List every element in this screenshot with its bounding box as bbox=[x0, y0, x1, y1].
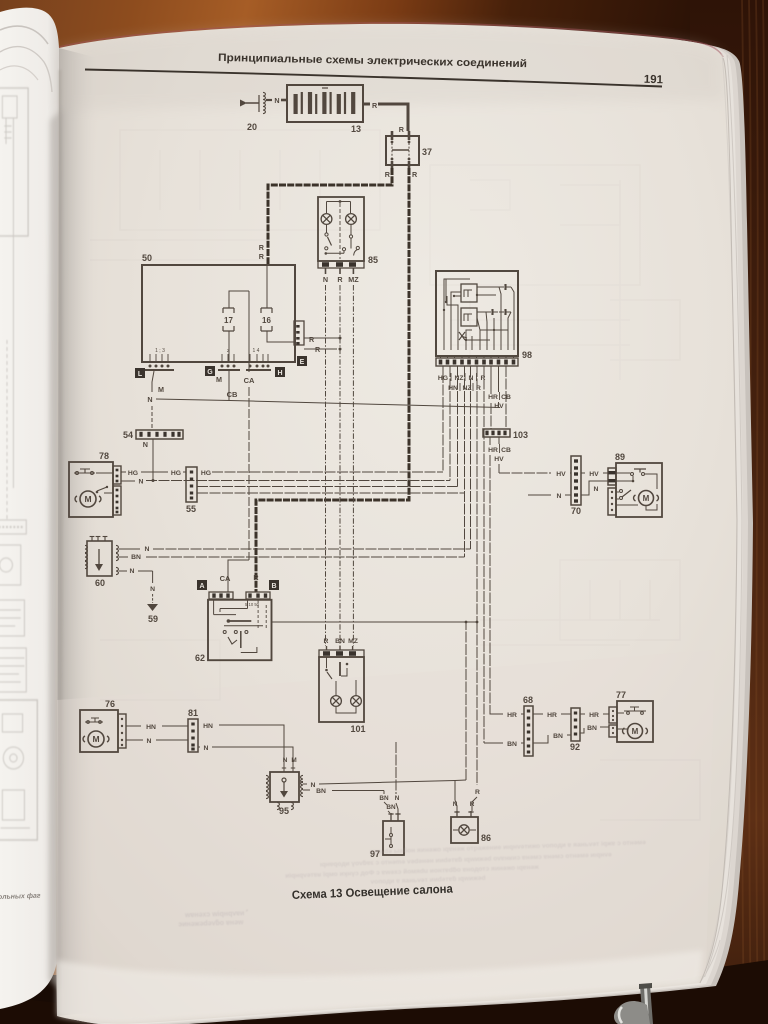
svg-text:BN: BN bbox=[131, 554, 141, 561]
svg-text:60: 60 bbox=[95, 578, 105, 588]
svg-text:BN: BN bbox=[335, 638, 345, 645]
svg-text:78: 78 bbox=[99, 451, 109, 461]
svg-text:BN: BN bbox=[553, 733, 563, 740]
svg-text:20: 20 bbox=[247, 122, 257, 132]
svg-text:81: 81 bbox=[188, 708, 198, 718]
svg-text:HN: HN bbox=[203, 723, 213, 730]
svg-text:191: 191 bbox=[644, 74, 664, 87]
svg-text:HV: HV bbox=[494, 403, 504, 410]
svg-text:HR: HR bbox=[547, 712, 557, 719]
svg-text:N: N bbox=[469, 375, 474, 382]
svg-text:N: N bbox=[323, 275, 328, 284]
svg-text:R: R bbox=[475, 789, 480, 796]
svg-text:R: R bbox=[412, 170, 418, 179]
svg-text:N: N bbox=[147, 738, 152, 745]
svg-text:17: 17 bbox=[224, 316, 233, 325]
svg-text:R: R bbox=[399, 125, 405, 134]
svg-text:92: 92 bbox=[570, 742, 580, 752]
svg-text:M: M bbox=[643, 494, 650, 503]
svg-text:MZ: MZ bbox=[348, 638, 358, 645]
svg-text:89: 89 bbox=[615, 452, 625, 462]
svg-text:R: R bbox=[385, 170, 391, 179]
svg-text:MZ: MZ bbox=[348, 275, 359, 284]
svg-text:76: 76 bbox=[105, 699, 115, 709]
svg-text:77: 77 bbox=[616, 690, 626, 700]
svg-text:HR: HR bbox=[507, 712, 517, 719]
svg-text:M: M bbox=[84, 494, 91, 504]
svg-text:HG: HG bbox=[171, 470, 181, 477]
svg-text:37: 37 bbox=[422, 147, 432, 157]
svg-text:HN: HN bbox=[146, 724, 156, 731]
svg-text:BN: BN bbox=[507, 741, 517, 748]
svg-text:62: 62 bbox=[195, 653, 205, 663]
svg-text:N: N bbox=[139, 479, 144, 486]
svg-text:50: 50 bbox=[142, 253, 152, 263]
svg-text:N: N bbox=[311, 782, 316, 789]
svg-text:H: H bbox=[277, 370, 282, 377]
svg-text:HG: HG bbox=[201, 470, 211, 477]
svg-text:70: 70 bbox=[571, 506, 581, 516]
svg-text:N: N bbox=[130, 568, 135, 575]
svg-text:CA: CA bbox=[244, 376, 255, 385]
svg-text:N: N bbox=[274, 96, 279, 105]
svg-text:1 4: 1 4 bbox=[253, 348, 260, 354]
svg-text:NZ: NZ bbox=[454, 375, 463, 382]
svg-text:1 ; 3: 1 ; 3 bbox=[155, 348, 165, 354]
svg-text:HV: HV bbox=[494, 456, 504, 463]
svg-text:HR: HR bbox=[488, 447, 498, 454]
svg-text:N: N bbox=[594, 486, 599, 493]
svg-text:CB: CB bbox=[227, 390, 238, 399]
svg-text:HV: HV bbox=[589, 471, 599, 478]
svg-text:CA: CA bbox=[220, 574, 231, 583]
svg-text:R: R bbox=[324, 638, 329, 645]
svg-text:54: 54 bbox=[123, 430, 133, 440]
svg-text:N: N bbox=[143, 440, 148, 449]
svg-text:HV: HV bbox=[556, 471, 566, 478]
svg-text:2: 2 bbox=[227, 348, 230, 353]
svg-text:55: 55 bbox=[186, 504, 196, 514]
svg-text:N: N bbox=[557, 493, 562, 500]
svg-text:101: 101 bbox=[350, 724, 365, 734]
svg-text:R: R bbox=[253, 573, 259, 582]
svg-text:M: M bbox=[158, 385, 164, 394]
svg-text:L: L bbox=[138, 371, 143, 378]
svg-text:103: 103 bbox=[513, 430, 528, 440]
svg-text:16: 16 bbox=[262, 316, 271, 325]
svg-text:86: 86 bbox=[481, 833, 491, 843]
svg-text:M: M bbox=[92, 734, 99, 744]
svg-text:E: E bbox=[300, 359, 305, 366]
svg-text:N: N bbox=[145, 546, 150, 553]
svg-text:R: R bbox=[372, 101, 378, 110]
svg-text:95: 95 bbox=[279, 806, 289, 816]
svg-text:R: R bbox=[259, 252, 265, 261]
svg-text:85: 85 bbox=[368, 255, 378, 265]
svg-text:68: 68 bbox=[523, 695, 533, 705]
svg-text:R: R bbox=[309, 335, 315, 344]
svg-text:HR: HR bbox=[488, 394, 498, 401]
svg-text:R: R bbox=[337, 275, 343, 284]
svg-text:98: 98 bbox=[522, 350, 532, 360]
svg-text:BN: BN bbox=[316, 788, 326, 795]
svg-text:N: N bbox=[395, 795, 400, 802]
svg-text:CB: CB bbox=[501, 447, 511, 454]
svg-text:G: G bbox=[207, 369, 213, 376]
svg-text:HG: HG bbox=[128, 470, 138, 477]
svg-text:N: N bbox=[204, 745, 209, 752]
svg-text:N: N bbox=[147, 395, 152, 404]
svg-text:R: R bbox=[259, 243, 265, 252]
svg-text:HR: HR bbox=[589, 712, 599, 719]
svg-text:M: M bbox=[632, 727, 639, 736]
svg-text:BN: BN bbox=[386, 804, 396, 811]
svg-text:M: M bbox=[291, 757, 296, 764]
svg-text:59: 59 bbox=[148, 614, 158, 624]
svg-text:13: 13 bbox=[351, 124, 361, 134]
svg-text:M: M bbox=[216, 375, 222, 384]
svg-text:A: A bbox=[199, 583, 204, 590]
svg-text:N: N bbox=[150, 586, 155, 593]
svg-text:N: N bbox=[283, 757, 288, 764]
svg-text:BN: BN bbox=[587, 725, 597, 732]
svg-text:N: N bbox=[453, 801, 458, 808]
svg-text:B: B bbox=[271, 583, 276, 590]
svg-text:BN: BN bbox=[379, 795, 389, 802]
svg-text:R: R bbox=[481, 375, 486, 382]
